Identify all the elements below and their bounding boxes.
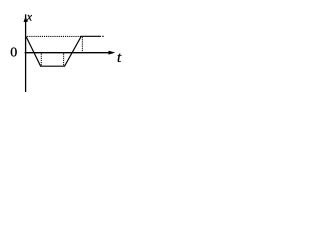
svg-text:0: 0	[10, 45, 17, 60]
svg-text:t: t	[117, 50, 122, 66]
svg-text:x: x	[26, 12, 33, 24]
